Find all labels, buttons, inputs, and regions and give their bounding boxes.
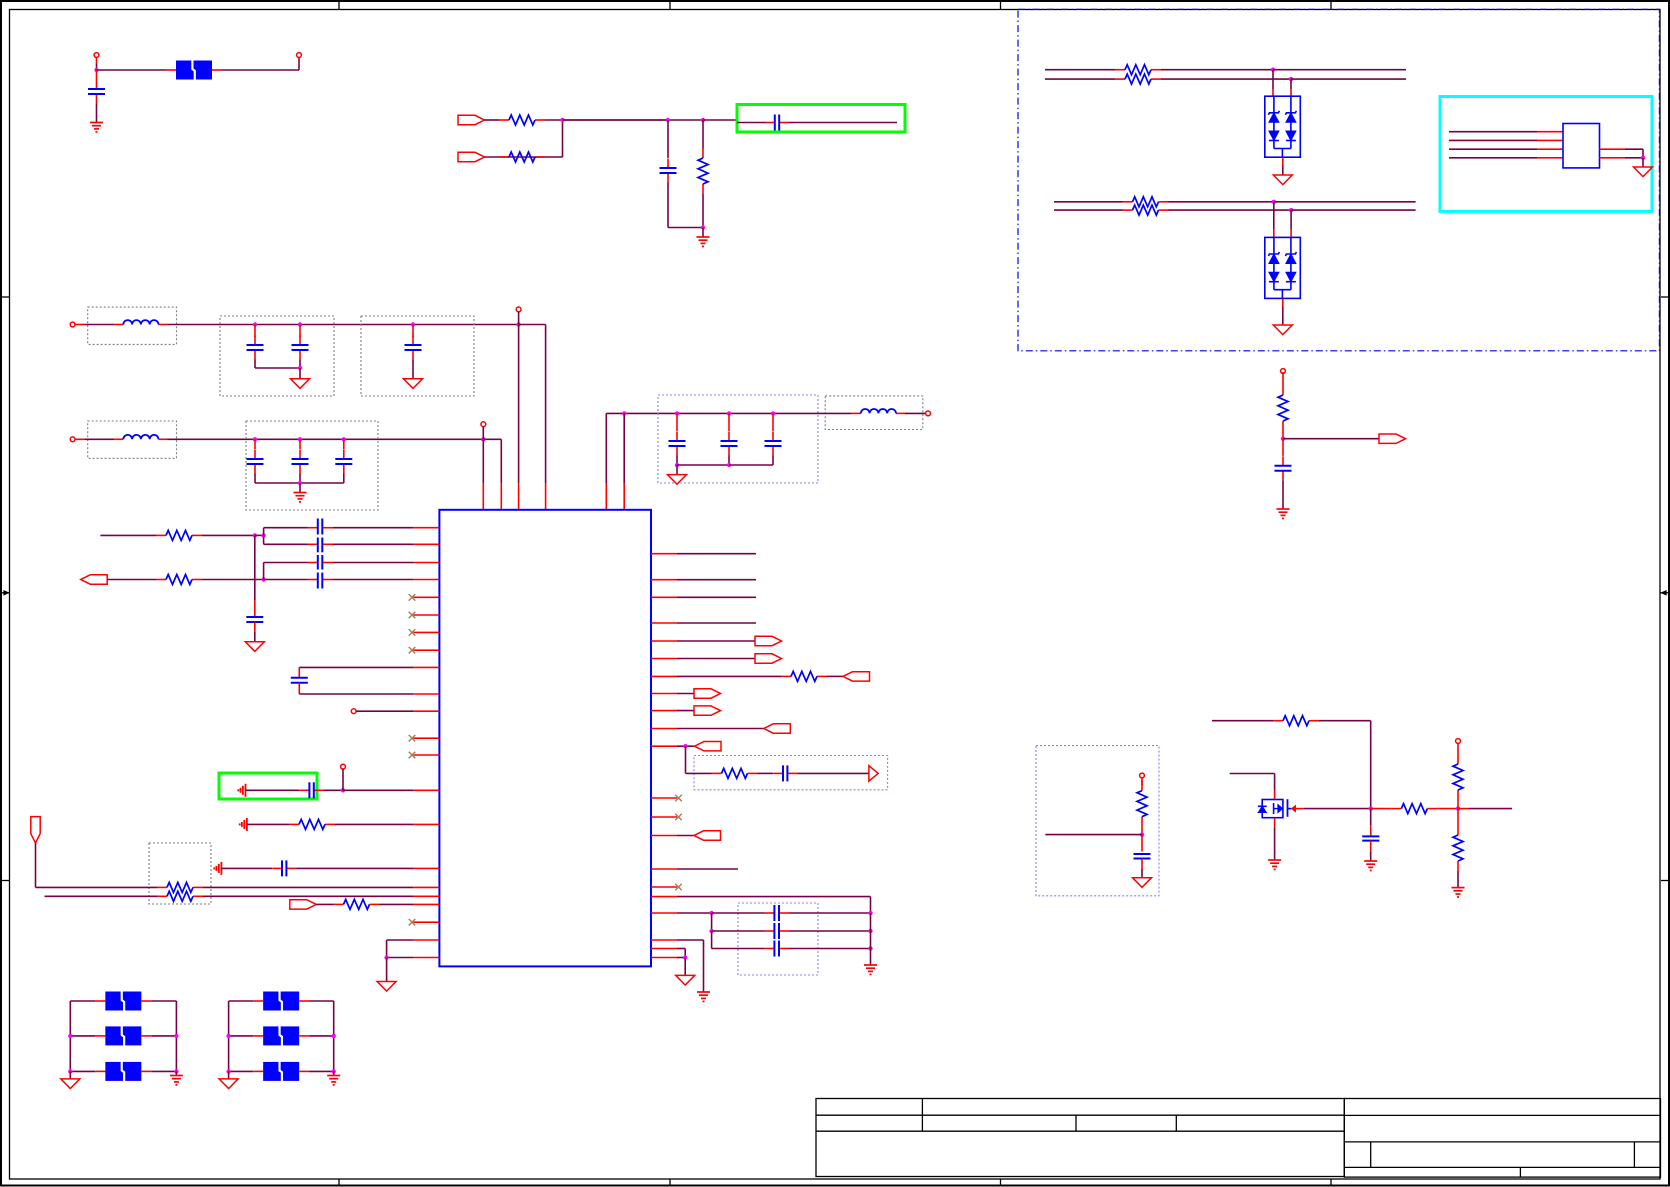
wire [70,1035,95,1037]
pin [651,948,677,950]
capacitor C19 [298,668,300,678]
capacitor group box (dashed) [220,316,334,396]
wire [96,104,98,123]
capacitor C3 [765,122,775,124]
ground [864,965,877,974]
wire [702,194,704,228]
wire [1141,827,1143,835]
wire [70,1000,95,1002]
resistor R17 [1273,720,1283,722]
ground [240,818,247,831]
wire [677,939,704,941]
wire [85,324,114,326]
wire [387,957,414,959]
wire [1282,157,1284,166]
pin [413,903,439,905]
capacitor box (dashed) [361,316,474,396]
capacitor C23 [765,912,775,914]
wire [356,710,413,712]
capacitor C2 [667,159,669,169]
wire [677,464,729,466]
wire [221,867,272,869]
wire [684,958,686,976]
wire [263,563,265,580]
ground [1634,167,1653,177]
fuse G1 [263,992,299,1011]
highlight box (green) [737,105,905,133]
pin [413,527,439,529]
capacitor C13 [772,413,774,431]
terminal TP5 [341,764,346,769]
pin [651,596,677,598]
resistor R21 [1282,373,1284,385]
wire [789,948,871,950]
snubber box (dashed blue) [694,756,888,790]
wire [1282,431,1284,439]
wire [789,930,871,932]
fuse F2 [105,1026,141,1045]
node K [253,322,257,326]
node V [675,411,679,415]
wire [212,69,222,71]
ground [214,862,221,875]
pin [413,579,439,581]
terminal TP2 [481,422,486,427]
ground [333,1071,335,1075]
wire [333,579,413,581]
node AC [261,577,265,581]
cap plates C14/C15 [318,519,323,553]
terminal J1 pin 2 [297,53,302,58]
node F [1271,68,1275,72]
wire net LINE1P [1045,69,1115,71]
highlight box (cyan) [1440,97,1652,212]
highlight box (green) [219,773,317,799]
port P7 [755,654,782,663]
wire [606,412,817,414]
terminal TP3 [926,411,931,416]
node X1 [727,411,731,415]
no-connect X1 [413,596,439,598]
port P10 [694,706,721,715]
pin [413,886,439,888]
wire [1319,720,1371,722]
wire [380,903,414,905]
wire [324,789,343,791]
wire [1282,372,1284,373]
pin [413,957,439,959]
capacitor C11 [676,413,678,431]
inductor L3 [852,412,861,414]
pin [651,675,677,677]
wire [485,156,563,158]
wire [1642,158,1644,167]
wire [797,772,869,774]
pin [651,912,677,914]
wire [677,835,694,837]
wire [316,903,333,905]
wire [677,675,781,677]
wire [482,439,484,484]
wire [1161,78,1291,80]
node [68,1069,72,1073]
wire net LINE1N [1045,78,1115,80]
ground [90,123,103,132]
node D [701,118,705,122]
no-connect X7 [413,921,439,923]
pin [651,745,677,747]
wire [677,745,695,747]
wire [343,789,413,791]
no-connect X2 [413,614,439,616]
wire [677,553,756,555]
wire [1230,773,1275,775]
capacitor C8 [254,439,256,449]
wire [1449,131,1537,133]
wire [333,543,413,545]
wire [1273,69,1406,71]
resistor R20 [1457,809,1459,825]
node AH [868,911,872,915]
terminal TP7 [1140,773,1145,778]
wire [1282,298,1284,307]
capacitor C24 [765,930,775,932]
wire [676,456,678,466]
wire [789,122,897,124]
wire [623,413,625,483]
wire [1457,800,1459,809]
wire [1274,201,1416,203]
node [332,1034,336,1038]
resistor R5 [1115,78,1125,80]
pin [413,666,439,668]
wire [1274,818,1276,828]
pin [651,693,677,695]
wire [1212,720,1273,722]
fuse G3 [263,1062,299,1081]
node E [701,225,705,229]
node J [1641,156,1645,160]
inductor box (dashed) [825,396,923,430]
port P9 [694,689,721,698]
ground [1268,860,1281,869]
capacitor C12 [728,413,730,431]
pin [651,658,677,660]
wire [299,1035,309,1037]
wire [677,948,685,950]
wire [299,666,413,668]
port P13 [869,766,878,781]
wire [772,456,774,466]
wire [412,360,414,379]
resistor pair box (dashed) [149,843,211,904]
wire [254,360,256,369]
wire [870,913,872,965]
capacitor C21 [272,867,282,869]
ground [1364,861,1377,870]
port P4 [31,817,40,844]
node B [560,118,564,122]
wire [107,579,156,581]
wire [202,534,255,536]
wire [141,1000,151,1002]
wire [299,483,301,493]
wire [203,895,413,897]
node AL [683,955,687,959]
wire [333,562,413,564]
wire [1290,210,1292,229]
wire [1282,480,1284,509]
resistor R19 [1457,743,1459,754]
wire [255,534,264,536]
IC U1 [439,510,651,967]
resistor R9 [156,579,166,581]
wire [667,120,669,158]
wire [1283,438,1379,440]
cap plates C16/C17 [318,555,323,589]
wire [333,527,413,529]
port P11 [764,724,791,733]
wire [203,886,413,888]
no-connect X9 [651,816,677,818]
wire [1457,871,1459,888]
port P2 [458,152,485,161]
pin [413,789,439,791]
ground [1277,509,1290,518]
pin [651,622,677,624]
wire [141,1070,151,1072]
wire [1273,202,1275,229]
node AI [709,929,713,933]
wire [386,958,388,982]
wire [500,439,502,484]
capacitor C7 [412,325,414,338]
resistor R6 [1123,201,1133,203]
node M [298,366,302,370]
wire [545,325,547,484]
wire [712,930,765,932]
pin [413,939,439,941]
resistor R8 [156,534,166,536]
component box (dashed) [88,307,177,344]
node AO [1369,806,1373,810]
node AA [253,533,257,537]
ground [1273,325,1292,335]
node W [675,463,679,467]
wire [1449,157,1537,159]
node AP [1456,806,1460,810]
wire [827,675,843,677]
wire [168,438,484,440]
node I [1289,208,1293,212]
port P6 [755,636,782,645]
pin [413,562,439,564]
resistor R4 [1115,69,1125,71]
resistor R18 [1391,808,1401,810]
pull-up box (dashed blue) [1036,746,1159,896]
ground [245,642,264,652]
fuse F1 [105,992,141,1011]
node H [1272,200,1276,204]
ground [697,992,710,1001]
wire [335,823,413,825]
wire [299,1070,309,1072]
terminal TP6 [1281,369,1286,374]
pin [651,896,677,898]
wire [229,1035,254,1037]
capacitor C28 [1282,439,1284,456]
ground [175,1071,177,1075]
capacitor C27 [1370,809,1372,826]
ground [291,379,310,389]
wire [254,535,256,600]
section box (blue dash-dot) [1018,9,1659,351]
wire [343,474,345,484]
wire [70,1070,95,1072]
ground [676,465,678,475]
wire [1437,808,1458,810]
capacitor C10 [343,439,345,449]
wire [711,931,713,949]
wire [299,360,301,369]
capacitor C20 [300,789,310,791]
wire [299,474,301,484]
wire [1449,139,1537,141]
node Y [727,463,731,467]
wire [1272,70,1274,89]
wire [485,119,500,121]
wire [677,868,738,870]
wire [483,438,501,440]
wire [1169,209,1292,211]
wire [299,368,301,379]
node [174,1069,178,1073]
wire [1291,209,1416,211]
node P [253,437,257,441]
wire [605,413,607,483]
port P12 [695,742,722,751]
connector U2 [1563,124,1600,168]
pin [651,835,677,837]
wire [677,912,712,914]
ground [404,379,423,389]
node AN [1140,832,1144,836]
capacitor C17 [308,579,318,581]
wire [254,474,256,484]
node AM [1281,437,1285,441]
wire [677,658,755,660]
no-connect X8 [651,797,677,799]
pin [413,543,439,545]
wire [229,1000,254,1002]
wire [1449,148,1537,150]
node AF [683,744,687,748]
transistor Q1 [1262,800,1283,818]
decoupling caps box (dashed blue) [658,395,818,483]
resistor R7 [1123,209,1133,211]
pin [413,693,439,695]
inductor L1 [114,324,123,326]
wire [168,324,519,326]
node AK [868,946,872,950]
port P8 [843,672,870,681]
ground [294,493,307,502]
node C [666,118,670,122]
wire [229,1070,254,1072]
resistor R2 [499,156,509,158]
wire [712,912,765,914]
wire [563,119,704,121]
node AE [384,955,388,959]
component box (dashed) [88,421,177,458]
capacitor C6 [299,325,301,338]
wire [299,693,413,695]
wire [228,1001,230,1071]
capacitor C25 [765,948,775,950]
port P5 [290,900,317,909]
node O [516,322,520,326]
wire [254,632,256,642]
node AD [341,788,345,792]
resistor R15 [712,772,722,774]
port P1 [458,115,485,124]
wire [677,710,694,712]
resistor R16 [1141,778,1143,785]
node Z [771,411,775,415]
wire [703,119,737,121]
wire [677,896,871,898]
wire [789,912,871,914]
node [332,1069,336,1073]
resistor R12 [157,895,167,897]
wire [1045,834,1142,836]
ground [1133,878,1152,888]
wire [175,1001,177,1071]
wire [518,325,520,484]
capacitor C15 [308,543,318,545]
resistor R11 [157,886,167,888]
wire [387,939,414,941]
pin [651,939,677,941]
node U [622,411,626,415]
gate arrow [1292,806,1296,812]
wire [263,535,265,544]
no-connect X4 [413,649,439,651]
resistor R3 [702,120,704,149]
pin [651,553,677,555]
wire [677,693,694,695]
ground [676,975,695,985]
wire [1169,201,1274,203]
wire [264,579,308,581]
port P14 [694,831,721,840]
inductor L2 [114,438,123,440]
no-connect X10 [651,886,677,888]
terminal TP4 [351,709,356,714]
wire [677,622,756,624]
capacitor C26 [1141,835,1143,852]
pin [413,867,439,869]
wire [85,438,114,440]
wire [729,464,773,466]
terminal J3 [70,437,75,442]
wire [202,579,264,581]
wire [545,119,668,121]
resistor R13 [334,903,344,905]
wire [728,456,730,466]
node L [298,322,302,326]
capacitor C1 [96,70,98,80]
